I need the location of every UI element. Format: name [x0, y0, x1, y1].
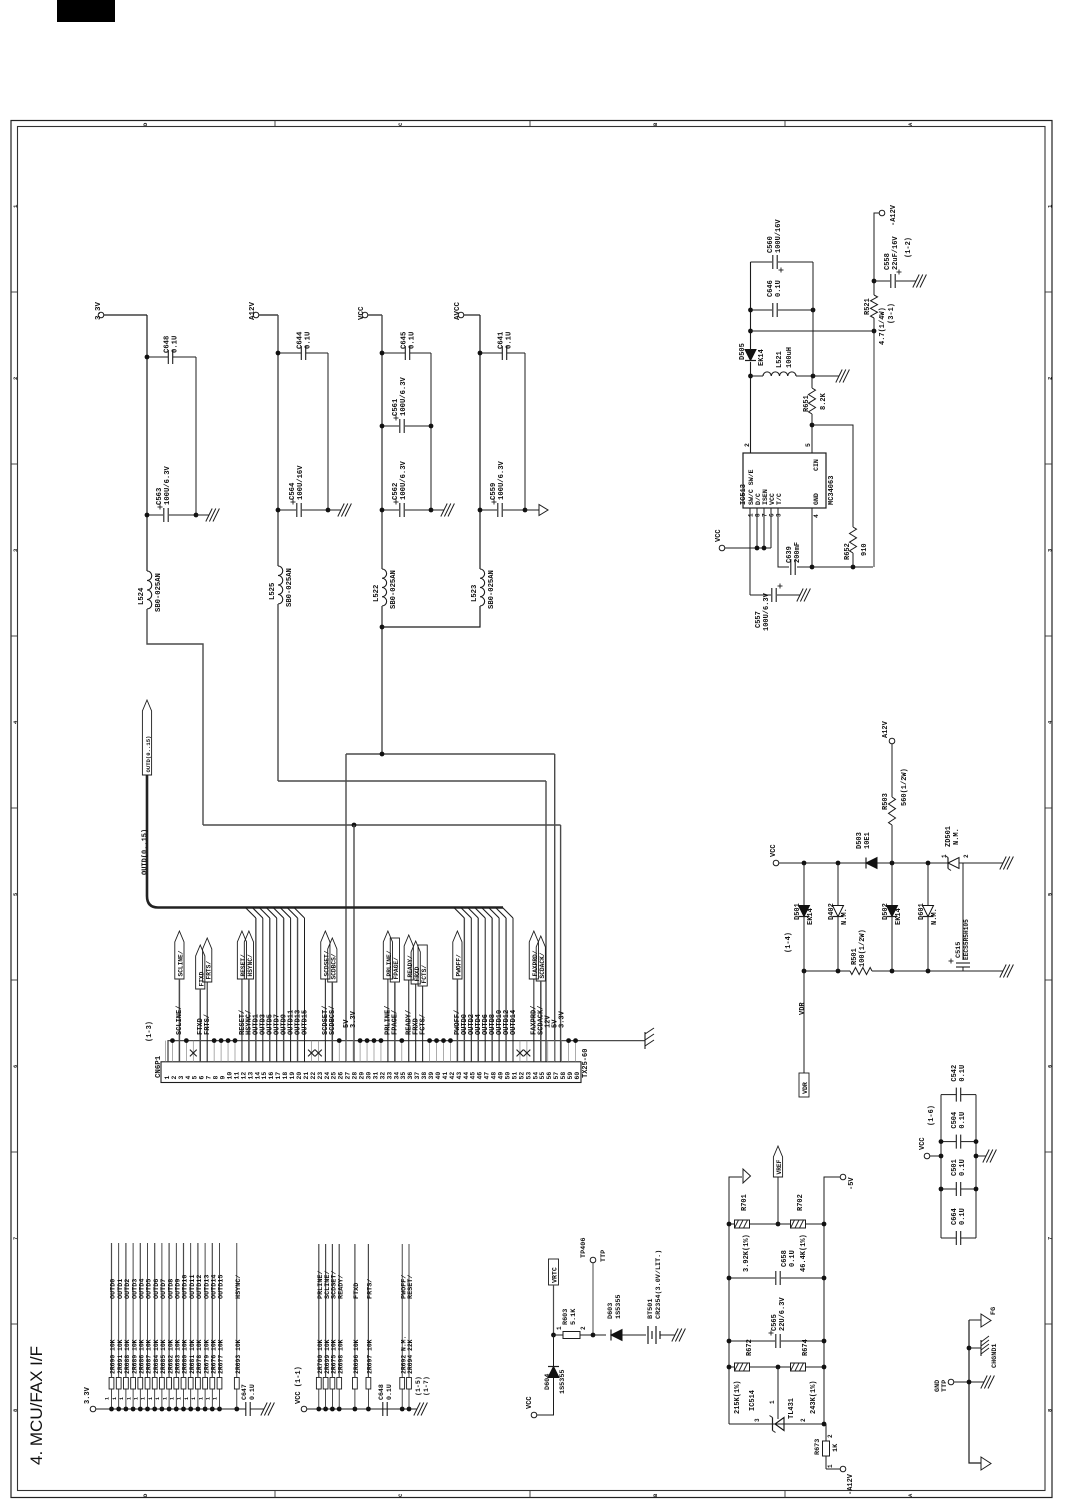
wire: [408, 980, 410, 1062]
wire: [456, 979, 458, 1062]
svg-text:8: 8: [213, 1076, 220, 1080]
wire: [327, 353, 329, 510]
node VCC terminal: [773, 860, 779, 866]
capacitor C664 0.1U: [941, 1237, 956, 1239]
svg-text:25: 25: [331, 1072, 338, 1080]
svg-text:6: 6: [1047, 1065, 1054, 1068]
resistor 2R680 10K: [181, 1407, 186, 1412]
svg-text:SB0-025AN: SB0-025AN: [488, 570, 496, 609]
svg-text:D402: D402: [828, 903, 836, 920]
node FRTS/ flag (pin 7): [203, 938, 212, 982]
capacitor C562: [382, 509, 399, 511]
svg-text:R603: R603: [562, 1309, 570, 1325]
wire IC pin leads: [749, 508, 751, 548]
svg-text:VCC (1-1): VCC (1-1): [295, 1366, 303, 1404]
svg-text:TL431: TL431: [788, 1398, 796, 1419]
svg-text:3.3V: 3.3V: [350, 1010, 358, 1028]
svg-text:R674: R674: [802, 1339, 810, 1356]
svg-text:C501: C501: [951, 1159, 959, 1176]
node VDR boxed label: [799, 1073, 809, 1097]
svg-text:L523: L523: [471, 585, 479, 602]
wire from L522 down: [381, 606, 383, 754]
diode D601 N.M.: [927, 863, 929, 906]
node FCTS/ flag (pin 38): [418, 945, 427, 986]
resistor R652 910: [852, 522, 854, 527]
wire GND pin4 lead: [811, 508, 813, 567]
svg-text:100U/16V: 100U/16V: [775, 219, 783, 253]
node FAXPRD/ flag (pin 54): [529, 931, 538, 979]
capacitor C648: [147, 356, 168, 358]
ground: [672, 1334, 675, 1336]
inductor L524 SB0-025AN: [147, 571, 152, 609]
svg-text:57: 57: [553, 1072, 560, 1080]
svg-text:21: 21: [303, 1072, 310, 1080]
svg-text:44: 44: [463, 1072, 470, 1080]
svg-text:2R693 10K: 2R693 10K: [235, 1339, 242, 1374]
diode D604 1S5355: [548, 1367, 559, 1378]
svg-text:0.1U: 0.1U: [305, 332, 313, 349]
svg-text:20: 20: [296, 1072, 303, 1080]
wire: [533, 979, 535, 1062]
svg-text:L524: L524: [138, 587, 146, 605]
svg-text:0.1U: 0.1U: [249, 1384, 256, 1400]
svg-text:VDR: VDR: [799, 1002, 807, 1015]
svg-text:33: 33: [386, 1072, 393, 1080]
connector pin numbers: [164, 1072, 581, 1080]
wire 12V drop to pin 56: [545, 781, 547, 1062]
svg-text:14: 14: [254, 1072, 261, 1080]
svg-text:0.1U: 0.1U: [789, 1250, 797, 1267]
svg-text:CIN: CIN: [813, 459, 820, 471]
wire feedback rail down: [873, 331, 875, 567]
node FG arrow: [969, 1319, 981, 1321]
svg-text:60: 60: [574, 1072, 581, 1080]
svg-text:53: 53: [525, 1072, 532, 1080]
svg-text:OUTD15: OUTD15: [301, 1010, 309, 1035]
svg-text:D603: D603: [607, 1303, 615, 1319]
resistor 2R677 10K: [217, 1407, 222, 1412]
resistor 2R691 10K: [116, 1407, 121, 1412]
svg-text:EK14: EK14: [758, 349, 766, 366]
svg-text:R702: R702: [797, 1194, 805, 1211]
svg-text:16: 16: [268, 1072, 275, 1080]
wire pin5 network: [811, 425, 813, 453]
wire L523 to L522 join: [382, 606, 480, 627]
svg-text:35: 35: [400, 1072, 407, 1080]
svg-text:VREF: VREF: [776, 1159, 783, 1174]
capacitor C557 100U/6.3V: [749, 548, 751, 595]
svg-text:FPAGE/: FPAGE/: [392, 1010, 400, 1035]
node FTXD flag (pin 6): [196, 945, 205, 989]
svg-text:CHGND1: CHGND1: [991, 1344, 999, 1368]
svg-text:FCTS/: FCTS/: [421, 965, 428, 984]
svg-text:C558: C558: [884, 253, 892, 270]
svg-text:2R678 10K: 2R678 10K: [196, 1339, 203, 1374]
svg-text:100uH: 100uH: [786, 347, 794, 368]
wire: [553, 1335, 555, 1366]
svg-text:(1-3): (1-3): [146, 1021, 154, 1042]
svg-text:2R694 22K: 2R694 22K: [407, 1339, 414, 1374]
svg-text:4: 4: [185, 1076, 192, 1080]
junction dots: [145, 355, 150, 360]
node VCC terminal: [362, 312, 368, 318]
svg-text:C542: C542: [951, 1065, 959, 1082]
svg-text:D604: D604: [544, 1374, 552, 1390]
ground at L521: [813, 375, 836, 377]
wire left rail: [750, 262, 752, 350]
svg-text:PRLINE/: PRLINE/: [386, 950, 393, 976]
svg-text:2: 2: [827, 1434, 834, 1438]
svg-text:1: 1: [119, 1397, 125, 1400]
node -5V terminal: [840, 1174, 846, 1180]
svg-text:910: 910: [861, 543, 869, 556]
node SCLINE/ flag (pin 3): [175, 931, 184, 979]
svg-text:32: 32: [379, 1072, 386, 1080]
wire VDR: [803, 971, 805, 1073]
svg-text:23: 23: [317, 1072, 324, 1080]
capacitor C565 22U/6.3V: [729, 1340, 775, 1342]
svg-text:0.1U: 0.1U: [959, 1159, 967, 1176]
svg-text:26: 26: [338, 1072, 345, 1080]
svg-text:2: 2: [800, 1418, 807, 1422]
resistor 2R699: [323, 1407, 328, 1412]
svg-text:1: 1: [213, 1397, 219, 1400]
svg-text:C644: C644: [297, 331, 305, 349]
wire chassis rail: [969, 1320, 981, 1463]
wire rail part 2: [388, 1408, 415, 1410]
wire: [178, 979, 180, 1062]
svg-text:2: 2: [580, 1326, 587, 1330]
resistor 2R684 10K: [152, 1407, 157, 1412]
svg-text:50: 50: [504, 1072, 511, 1080]
svg-text:C664: C664: [951, 1208, 959, 1225]
wire A12V rail: [259, 314, 278, 316]
resistor R651 8.2K: [811, 376, 813, 388]
diode D505 EK14: [745, 350, 756, 361]
svg-text:2R681 10K: 2R681 10K: [189, 1339, 196, 1374]
wire bottom row: [729, 1423, 824, 1425]
svg-text:FRXD: FRXD: [414, 966, 421, 981]
svg-text:D501: D501: [794, 903, 802, 920]
svg-text:54: 54: [532, 1072, 539, 1080]
zener ZD501 N.M.: [948, 858, 959, 869]
svg-text:7: 7: [1047, 1237, 1054, 1240]
svg-text:GND: GND: [813, 493, 820, 505]
svg-text:C565: C565: [771, 1314, 779, 1331]
svg-text:560(1/2W): 560(1/2W): [901, 768, 909, 806]
svg-text:42: 42: [449, 1072, 456, 1080]
connector pin stubs: [166, 1041, 576, 1062]
wire 5V bus: [346, 753, 555, 755]
svg-text:MC34063: MC34063: [828, 476, 836, 505]
diode D402 N.M.: [837, 863, 839, 906]
svg-text:18: 18: [282, 1072, 289, 1080]
ground: [431, 509, 441, 511]
resistor R501 100(1/2W): [850, 968, 872, 975]
svg-text:1: 1: [164, 1076, 171, 1080]
resistor 2R688 10K: [124, 1407, 129, 1412]
resistor 2R682 10K: [167, 1407, 172, 1412]
svg-text:R503: R503: [882, 793, 890, 810]
svg-text:46: 46: [477, 1072, 484, 1080]
svg-text:FRTS/: FRTS/: [205, 961, 212, 980]
svg-text:N.M.: N.M.: [841, 908, 849, 925]
node A12V terminal: [889, 738, 895, 744]
no-connect X marks: [190, 1050, 530, 1057]
resistor R603 5.1K: [554, 1334, 564, 1336]
capacitor C542 0.1U: [941, 1094, 956, 1096]
svg-text:C645: C645: [401, 332, 409, 349]
resistor 2R679 10K: [203, 1407, 208, 1412]
wire: [394, 982, 396, 1062]
svg-text:AVCC: AVCC: [454, 301, 462, 320]
wire left rail: [729, 1177, 742, 1424]
svg-text:0.1U: 0.1U: [775, 280, 783, 297]
svg-text:2R679 10K: 2R679 10K: [203, 1339, 210, 1374]
svg-text:-5V: -5V: [848, 1177, 856, 1190]
svg-text:FPAGE/: FPAGE/: [393, 957, 400, 980]
inductor L525 SB0-025AN: [278, 566, 283, 604]
svg-text:D502: D502: [882, 903, 890, 920]
svg-text:6: 6: [199, 1076, 206, 1080]
svg-text:243K(1%): 243K(1%): [810, 1380, 818, 1414]
svg-text:SCDBCS/: SCDBCS/: [331, 953, 338, 979]
svg-text:2R697 10K: 2R697 10K: [367, 1339, 374, 1374]
capacitor C564: [278, 509, 296, 511]
wire: [622, 1334, 646, 1336]
svg-text:2R687 10K: 2R687 10K: [146, 1339, 153, 1374]
svg-text:1: 1: [198, 1397, 204, 1400]
svg-text:27: 27: [345, 1072, 352, 1080]
wire right branch: [812, 262, 814, 376]
svg-text:2: 2: [171, 1076, 178, 1080]
svg-text:11: 11: [233, 1072, 240, 1080]
svg-text:22: 22: [310, 1072, 317, 1080]
svg-text:SB0-025AN: SB0-025AN: [286, 568, 294, 607]
svg-text:SCLINE/: SCLINE/: [178, 950, 185, 976]
svg-text:C564: C564: [289, 482, 297, 500]
wire: [248, 979, 250, 1062]
svg-text:28: 28: [352, 1072, 359, 1080]
svg-text:VCC: VCC: [358, 306, 366, 320]
capacitor C559: [480, 509, 497, 511]
svg-text:45: 45: [470, 1072, 477, 1080]
svg-text:D601: D601: [918, 903, 926, 920]
wire connector common rail: [168, 1041, 645, 1062]
svg-text:36: 36: [407, 1072, 414, 1080]
resistor 2R678 10K: [196, 1407, 201, 1412]
svg-text:(1-5): (1-5): [415, 1376, 422, 1396]
svg-text:100U/6.3V: 100U/6.3V: [498, 460, 506, 500]
svg-text:D503: D503: [856, 832, 864, 849]
svg-text:40: 40: [435, 1072, 442, 1080]
wire AVCC rail: [464, 314, 480, 316]
svg-text:OUTD15: OUTD15: [218, 1275, 226, 1299]
svg-text:10: 10: [226, 1072, 233, 1080]
svg-text:1: 1: [170, 1397, 176, 1400]
svg-text:-A12V: -A12V: [847, 1473, 855, 1495]
svg-text:43: 43: [456, 1072, 463, 1080]
svg-text:R521: R521: [864, 298, 872, 315]
svg-text:1: 1: [748, 513, 755, 517]
svg-text:39: 39: [428, 1072, 435, 1080]
svg-text:FRTS/: FRTS/: [367, 1279, 375, 1299]
svg-text:CR2354(3.0V/LIT.): CR2354(3.0V/LIT.): [655, 1250, 663, 1319]
svg-text:34: 34: [393, 1072, 400, 1080]
svg-text:58: 58: [560, 1072, 567, 1080]
wire: [387, 979, 389, 1062]
svg-text:2R683 10K: 2R683 10K: [175, 1339, 182, 1374]
node VCC terminal: [719, 545, 725, 551]
svg-text:100U/6.3V: 100U/6.3V: [400, 376, 408, 416]
svg-text:47: 47: [484, 1072, 491, 1080]
svg-text:IC514: IC514: [749, 1390, 757, 1411]
svg-text:0.1U: 0.1U: [959, 1208, 967, 1225]
svg-text:48: 48: [491, 1072, 498, 1080]
svg-text:READY/: READY/: [337, 1275, 345, 1299]
svg-text:2R691 10K: 2R691 10K: [117, 1339, 124, 1374]
wire VCC rail to IC pins: [725, 547, 771, 549]
svg-text:1: 1: [112, 1397, 118, 1400]
svg-text:EK14: EK14: [895, 908, 903, 925]
node bottom arrow: [981, 1457, 991, 1470]
resistor 2R693 10K: [234, 1407, 239, 1412]
node PRLINE/ flag (pin 33): [383, 931, 392, 979]
svg-text:SW/C SW/E: SW/C SW/E: [748, 469, 755, 505]
svg-text:1: 1: [941, 854, 948, 858]
svg-text:0.1U: 0.1U: [386, 1384, 393, 1400]
svg-text:5: 5: [805, 443, 812, 447]
diode D503 10E1: [866, 858, 877, 869]
svg-text:2R682 10K: 2R682 10K: [167, 1339, 174, 1374]
svg-text:100U/6.3V: 100U/6.3V: [763, 592, 771, 631]
svg-text:7: 7: [206, 1076, 213, 1080]
svg-text:2R677 10K: 2R677 10K: [218, 1339, 225, 1374]
svg-text:1: 1: [126, 1397, 132, 1400]
svg-text:2R684 10K: 2R684 10K: [153, 1339, 160, 1374]
svg-text:2R696 10K: 2R696 10K: [353, 1339, 360, 1374]
svg-text:VCC: VCC: [919, 1137, 927, 1150]
resistor R503 560(1/2W): [891, 825, 893, 863]
svg-text:(1-2): (1-2): [905, 237, 913, 258]
svg-text:2R698 10K: 2R698 10K: [337, 1339, 344, 1374]
node RESET/ flag (pin 12): [237, 931, 246, 979]
capacitor C560 100U/16V: [751, 261, 773, 263]
wire to -A12V: [874, 213, 879, 281]
capacitor C504 0.1U: [941, 1141, 956, 1143]
svg-text:200mF: 200mF: [794, 542, 802, 563]
wire bottom feedback row: [812, 566, 873, 568]
svg-text:7: 7: [12, 1237, 19, 1240]
svg-text:BT501: BT501: [647, 1299, 655, 1319]
svg-text:2: 2: [12, 377, 19, 380]
capacitor C647 0.1U: [243, 1408, 246, 1410]
resistor 2R690 10K: [109, 1407, 114, 1412]
svg-text:C560: C560: [767, 236, 775, 253]
svg-text:VDR: VDR: [802, 1082, 809, 1094]
wire: [241, 979, 243, 1062]
svg-text:0.1U: 0.1U: [409, 332, 417, 349]
op-amp / regulator IC513 MC34063 body: [743, 453, 826, 508]
resistor R521 4.7(1/4W): [873, 318, 875, 331]
wire VCC rail: [368, 314, 382, 316]
svg-text:(3-1): (3-1): [888, 303, 896, 324]
wire: [954, 1381, 981, 1383]
svg-text:SB0-025AN: SB0-025AN: [390, 570, 398, 609]
svg-text:SCDSET/: SCDSET/: [324, 950, 331, 976]
svg-text:A12V: A12V: [249, 301, 257, 320]
ground: [261, 1408, 264, 1410]
node TP406 TTP test point: [590, 1257, 596, 1263]
svg-text:(1-6): (1-6): [928, 1105, 936, 1126]
svg-text:FG: FG: [990, 1307, 998, 1315]
wire: [422, 986, 424, 1062]
battery BT501 CR2354(3.0V/LIT.): [647, 1326, 649, 1344]
svg-text:1: 1: [206, 1397, 212, 1400]
wire: [930, 1155, 941, 1157]
svg-text:51: 51: [511, 1072, 518, 1080]
svg-text:TTP: TTP: [600, 1250, 608, 1262]
svg-text:38: 38: [421, 1072, 428, 1080]
svg-text:2: 2: [1047, 377, 1054, 380]
svg-text:0.1U: 0.1U: [959, 1065, 967, 1082]
ground: [328, 509, 338, 511]
svg-text:3.3V: 3.3V: [95, 301, 103, 320]
svg-text:RESET/: RESET/: [407, 1275, 415, 1299]
node READY/ flag (pin 36): [404, 935, 413, 980]
capacitor C515 EECS5R5H105: [962, 863, 964, 960]
connector CN6P1 body: [161, 1062, 581, 1083]
resistor 2R676 10K: [210, 1407, 215, 1412]
svg-text:VCC: VCC: [715, 529, 723, 542]
svg-text:8: 8: [755, 513, 762, 517]
svg-text:3.3V: 3.3V: [84, 1386, 92, 1404]
node OUTD(0..15) bus flag: [142, 700, 151, 775]
node VCC terminal: [924, 1153, 930, 1159]
svg-text:VRTC: VRTC: [552, 1267, 559, 1283]
svg-text:C562: C562: [392, 483, 400, 500]
svg-text:(1-7): (1-7): [423, 1376, 430, 1396]
svg-text:2R686 10K: 2R686 10K: [139, 1339, 146, 1374]
svg-text:RESET/: RESET/: [240, 954, 247, 977]
svg-text:3: 3: [178, 1076, 185, 1080]
node -A12V terminal: [840, 1466, 846, 1472]
wire: [331, 982, 333, 1062]
wire pin3 lead: [778, 508, 789, 567]
ground fork at rail end: [645, 1028, 654, 1049]
svg-text:SCDBCS/: SCDBCS/: [329, 1006, 337, 1035]
wire 5V drop to pin 57: [554, 754, 556, 1062]
svg-text:0.1U: 0.1U: [172, 336, 180, 353]
svg-text:56: 56: [546, 1072, 553, 1080]
svg-text:L521: L521: [776, 351, 784, 368]
svg-text:C639: C639: [786, 546, 794, 563]
wire 5V drop to pin 27: [345, 754, 347, 1062]
svg-text:5.1K: 5.1K: [570, 1308, 578, 1325]
svg-text:1: 1: [184, 1397, 190, 1400]
wire output row: [751, 330, 875, 332]
svg-text:HSYNC/: HSYNC/: [235, 1275, 243, 1299]
svg-text:T/C: T/C: [776, 493, 783, 505]
svg-text:R673: R673: [814, 1439, 822, 1455]
svg-text:VCC: VCC: [526, 1396, 534, 1409]
node 3.3V terminal: [90, 1406, 96, 1412]
node HSYNC/ flag (pin 13): [244, 931, 253, 979]
svg-text:ISEN: ISEN: [762, 489, 769, 505]
capacitor C561: [382, 425, 399, 427]
svg-text:3.3V: 3.3V: [558, 1010, 566, 1028]
svg-text:29: 29: [359, 1072, 366, 1080]
